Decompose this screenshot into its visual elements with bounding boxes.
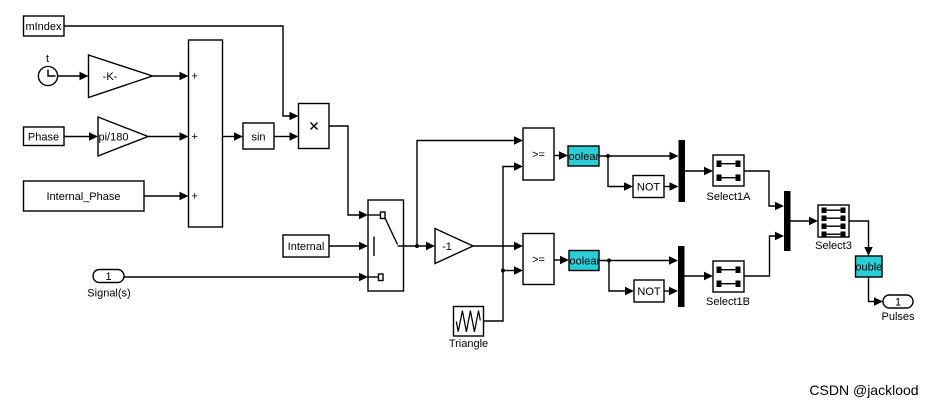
clock t <box>38 53 57 86</box>
svg-text:Select1B: Select1B <box>706 296 750 308</box>
wire mux 1 to Select1A <box>685 167 713 175</box>
svg-text:Select1A: Select1A <box>706 191 751 203</box>
svg-text:1: 1 <box>895 297 901 309</box>
wire junction up to relational operator 1 input 1 <box>417 136 523 246</box>
svg-text:Phase: Phase <box>28 132 59 144</box>
selector Select1A <box>706 155 751 203</box>
gain pi/180 <box>98 117 148 156</box>
svg-text:pi/180: pi/180 <box>99 132 129 144</box>
data type conversion boolean 2 <box>563 251 602 271</box>
svg-text:Signal(s): Signal(s) <box>87 288 130 300</box>
wire mux 3 to Select3 <box>791 217 819 225</box>
mux 1 <box>679 140 686 202</box>
svg-text:Internal: Internal <box>288 241 325 253</box>
wire Phase to gain pi/180 <box>64 132 98 140</box>
wire Select1A to mux 3 input 1 <box>744 171 784 210</box>
wire gain -1 to relational operator 2 input 1 <box>473 242 523 250</box>
svg-text:>=: >= <box>532 254 545 266</box>
switch block <box>368 200 404 291</box>
inport Signal(s) <box>87 270 130 300</box>
wire Internal to switch middle input <box>329 242 368 250</box>
data type conversion boolean 1 <box>562 146 601 166</box>
wire sin to product input 2 <box>274 132 299 140</box>
mux 3 <box>784 191 791 251</box>
wire mux 2 to Select1B <box>685 272 714 280</box>
wire relational operator 2 to boolean 2 <box>554 256 569 264</box>
wire double to Pulses outport <box>869 277 884 306</box>
wire boolean 1 to mux 1 input 1 with junction <box>599 152 679 160</box>
wire boolean 2 to mux 2 input 1 with junction <box>599 256 678 264</box>
svg-text:1: 1 <box>105 271 111 283</box>
wire Select3 to double conversion <box>849 221 873 256</box>
wire gain pi/180 to sum input 2 <box>148 132 189 140</box>
logical operator NOT 2 <box>634 280 664 302</box>
svg-text:Internal_Phase: Internal_Phase <box>47 191 121 203</box>
sum block <box>189 40 223 227</box>
svg-text:+: + <box>192 191 198 203</box>
svg-text:t: t <box>46 53 49 65</box>
wire gain -K- to sum input 1 <box>153 72 189 80</box>
wire junction down to NOT 2 <box>609 261 634 296</box>
constant Internal <box>283 235 329 257</box>
svg-text:>=: >= <box>532 149 545 161</box>
svg-text:-1: -1 <box>442 241 452 253</box>
selector Select3 <box>815 205 852 252</box>
wire mIndex to product top input <box>64 26 299 120</box>
wire sum to sin <box>223 132 244 140</box>
selector Select1B <box>706 261 750 308</box>
gain -1 <box>435 229 473 264</box>
outport Pulses <box>881 295 915 323</box>
constant mIndex <box>24 16 65 36</box>
wire Internal_Phase to sum input 3 <box>144 192 189 200</box>
wire clock to gain -K- <box>58 72 89 80</box>
svg-text:CSDN @jacklood: CSDN @jacklood <box>809 382 918 398</box>
repeating sequence Triangle <box>449 307 488 351</box>
svg-text:-K-: -K- <box>103 71 118 83</box>
relational operator 2 <box>523 234 554 285</box>
product block <box>299 104 330 149</box>
svg-text:Select3: Select3 <box>815 240 852 252</box>
inport Phase <box>24 127 65 146</box>
wire junction down to NOT 1 <box>608 156 633 191</box>
svg-text:mIndex: mIndex <box>25 21 62 33</box>
wire Select1B to mux 3 input 2 <box>744 232 784 276</box>
svg-text:sin: sin <box>251 132 265 144</box>
svg-text:Pulses: Pulses <box>881 311 915 323</box>
svg-text:+: + <box>192 71 198 83</box>
svg-text:+: + <box>192 131 198 143</box>
wire relational operator 1 to boolean 1 <box>554 151 568 159</box>
wire switch output to gain -1 with junction <box>404 242 436 250</box>
svg-text:NOT: NOT <box>637 286 661 298</box>
relational operator 1 <box>523 128 554 180</box>
gain -K- <box>89 55 153 98</box>
watermark <box>809 382 918 398</box>
sin block <box>243 123 274 149</box>
wire Triangle up to relational operator inputs with junction <box>484 162 524 321</box>
wire Signal(s) to switch bottom input <box>124 273 368 281</box>
svg-text:Triangle: Triangle <box>449 338 488 350</box>
wire product to switch top input <box>329 126 368 219</box>
wire NOT 2 to mux 2 input 2 <box>664 287 678 295</box>
constant Internal_Phase <box>24 181 145 211</box>
data type conversion double <box>849 256 882 277</box>
wire NOT 1 to mux 1 input 2 <box>664 182 679 190</box>
svg-text:NOT: NOT <box>637 182 661 194</box>
logical operator NOT 1 <box>633 176 664 198</box>
mux 2 <box>678 246 685 307</box>
